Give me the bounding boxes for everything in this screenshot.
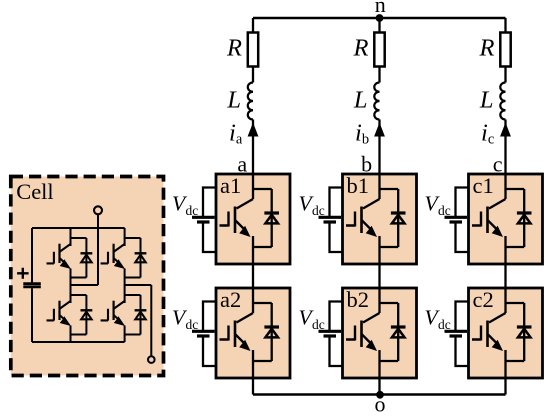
svg-text:a1: a1: [220, 173, 241, 198]
svg-text:L: L: [479, 87, 494, 114]
svg-text:ic: ic: [481, 120, 494, 148]
svg-text:Cell: Cell: [16, 179, 54, 204]
svg-text:R: R: [226, 35, 242, 62]
svg-text:a2: a2: [220, 287, 241, 312]
svg-text:o: o: [375, 392, 386, 417]
svg-text:c1: c1: [473, 173, 494, 198]
svg-text:R: R: [353, 35, 369, 62]
svg-text:ia: ia: [229, 120, 243, 148]
svg-text:n: n: [375, 0, 386, 17]
svg-text:ib: ib: [355, 120, 369, 148]
svg-text:b2: b2: [347, 287, 370, 312]
svg-text:R: R: [479, 35, 495, 62]
svg-text:c: c: [493, 151, 503, 176]
svg-text:L: L: [226, 87, 241, 114]
svg-text:b1: b1: [347, 173, 370, 198]
svg-text:c2: c2: [473, 287, 494, 312]
svg-text:L: L: [353, 87, 368, 114]
